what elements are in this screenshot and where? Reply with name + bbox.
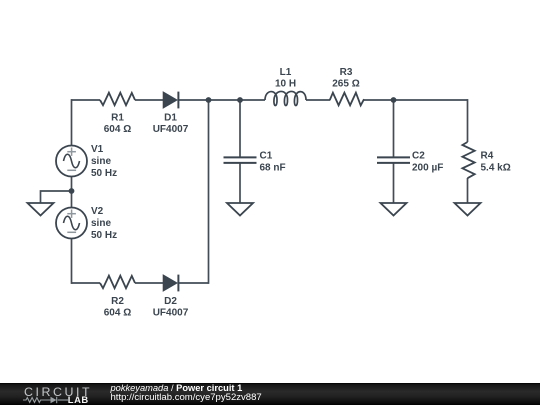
svg-text:C1: C1 [260, 151, 273, 162]
svg-text:LAB: LAB [68, 394, 89, 405]
svg-text:UF4007: UF4007 [153, 308, 189, 319]
wire top rail left segment [72, 99, 101, 101]
wire C1 top [239, 100, 241, 157]
ground (C1) [227, 203, 253, 216]
node A (D1 cathode / bottom branch) [206, 97, 212, 103]
footer text [111, 384, 262, 403]
wire bottom-right corner up to top rail [208, 100, 210, 284]
wire top-left corner down to V1 [71, 99, 73, 145]
wire D1 to L1 (through nodes) [178, 99, 265, 101]
resistor R4 [462, 142, 510, 178]
wire ground stub from V node [41, 191, 72, 203]
wire bottom rail left segment [72, 282, 101, 284]
label L1 name/value [275, 67, 296, 90]
label R4 name/value [481, 151, 511, 174]
wire V2 down to bottom rail [71, 239, 73, 284]
svg-text:D2: D2 [164, 296, 177, 307]
svg-text:V2: V2 [91, 206, 104, 217]
wire V1 to V2 [71, 177, 73, 208]
svg-text:R3: R3 [340, 67, 353, 78]
svg-text:5.4 kΩ: 5.4 kΩ [481, 163, 511, 174]
ground (R4) [455, 203, 481, 216]
node C (C2 tap) [391, 97, 397, 103]
label C2 name/value [412, 151, 443, 174]
svg-text:R1: R1 [111, 113, 124, 124]
label D1 name/value [153, 113, 189, 136]
node D (source midpoint / ground) [69, 188, 75, 194]
diode D2 [153, 275, 189, 319]
svg-text:68 nF: 68 nF [260, 163, 286, 174]
resistor R1 [100, 93, 135, 135]
resistor R3 [330, 67, 364, 105]
wire L1 to R3 [306, 99, 330, 101]
svg-text:200 µF: 200 µF [412, 163, 443, 174]
wire R3 to R4 corner [364, 99, 468, 101]
wire C2 bottom [393, 163, 395, 203]
svg-text:R2: R2 [111, 296, 124, 307]
svg-text:265 Ω: 265 Ω [332, 79, 359, 90]
wire R4 top [467, 99, 469, 142]
svg-text:C2: C2 [412, 151, 425, 162]
voltage source V1 [56, 144, 117, 179]
label R3 name/value [332, 67, 359, 90]
node B (C1 tap) [237, 97, 243, 103]
inductor L1 [265, 67, 306, 106]
ground (V sources) [28, 203, 54, 216]
label V1 name/value [91, 144, 117, 179]
wire D2 to bottom-right corner [178, 282, 208, 284]
wire R1 to D1 [135, 99, 163, 101]
diode D1 [153, 92, 189, 135]
svg-text:50 Hz: 50 Hz [91, 168, 117, 179]
capacitor C1 [224, 151, 286, 174]
svg-text:604 Ω: 604 Ω [104, 308, 131, 319]
svg-text:UF4007: UF4007 [153, 124, 189, 135]
svg-text:10 H: 10 H [275, 79, 296, 90]
svg-text:50 Hz: 50 Hz [91, 230, 117, 241]
wire R4 bottom [467, 178, 469, 203]
CircuitLab logo [0, 383, 110, 405]
svg-text:V1: V1 [91, 144, 104, 155]
label R1 name/value [104, 113, 131, 136]
ground (C2) [381, 203, 407, 216]
label C1 name/value [260, 151, 286, 174]
svg-text:D1: D1 [164, 113, 177, 124]
voltage source V2 [56, 206, 117, 241]
svg-text:sine: sine [91, 218, 111, 229]
footer bar [0, 383, 540, 405]
label V2 name/value [91, 206, 117, 241]
label D2 name/value [153, 296, 189, 319]
wire C2 top [393, 100, 395, 157]
svg-text:R4: R4 [481, 151, 494, 162]
svg-text:L1: L1 [280, 67, 292, 78]
capacitor C2 [377, 151, 443, 174]
label R2 name/value [104, 296, 131, 319]
svg-text:sine: sine [91, 156, 111, 167]
svg-text:604 Ω: 604 Ω [104, 124, 131, 135]
wire C1 bottom [239, 163, 241, 203]
resistor R2 [100, 276, 135, 319]
wire R2 to D2 [135, 282, 163, 284]
